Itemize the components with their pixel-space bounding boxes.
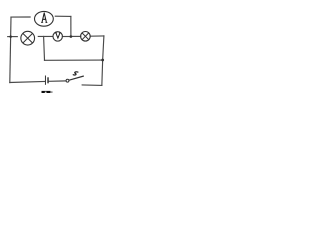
battery B1 thick plate — [47, 77, 48, 83]
wire lamp1 to voltmeter — [38, 35, 53, 37]
battery B1 thin plate — [44, 76, 46, 85]
wire lamp2 to right rail — [90, 35, 104, 37]
label V — [55, 33, 61, 38]
wire ammeter drop — [70, 16, 72, 36]
wire top stub left — [11, 16, 30, 18]
wire tee drop — [43, 36, 46, 60]
ammeter A1 — [35, 11, 54, 26]
wire bypass horizontal — [45, 59, 103, 61]
node junction dot ammeter branch — [70, 35, 73, 38]
lamp L1 — [21, 31, 35, 45]
wire voltmeter to node — [62, 36, 70, 38]
wire bottom right — [82, 84, 102, 87]
wire right rail — [102, 36, 104, 85]
voltmeter V1 — [53, 32, 62, 41]
label A — [41, 13, 47, 23]
caption jia (partial, cut off at bottom) — [42, 91, 51, 93]
wire bottom left — [10, 82, 45, 83]
label S — [73, 72, 78, 75]
node junction dot right rail — [101, 59, 104, 62]
switch pivot — [66, 79, 69, 82]
switch S blade — [69, 76, 84, 80]
wire left rail — [10, 17, 11, 82]
wire middle left tick — [8, 36, 18, 38]
lamp L2 — [81, 32, 91, 42]
node junction dot left — [9, 35, 12, 38]
wire node to lamp2 — [72, 35, 81, 37]
wire top stub right — [55, 15, 71, 17]
wire battery to switch — [49, 80, 66, 82]
